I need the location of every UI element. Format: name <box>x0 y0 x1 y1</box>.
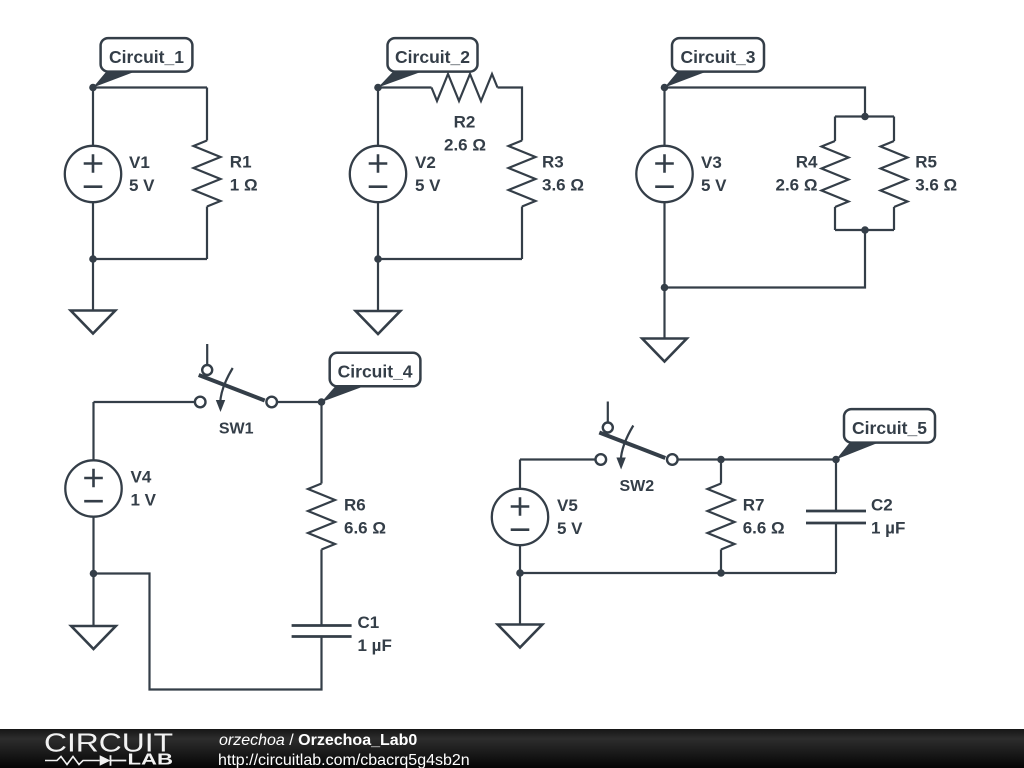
resistor R7 <box>708 484 735 550</box>
label R3 value <box>542 152 584 194</box>
label C2 value <box>871 495 905 537</box>
svg-text:3.6 Ω: 3.6 Ω <box>542 176 584 195</box>
node junction circuit3 bottom bracket <box>861 226 869 234</box>
label R5 value <box>915 152 957 194</box>
node callout Circuit_1 <box>89 38 192 91</box>
svg-text:Circuit_4: Circuit_4 <box>338 362 413 382</box>
voltage source V3 <box>636 146 692 202</box>
wire circuit2 bottom <box>378 258 522 260</box>
wire R4 leads <box>834 117 836 231</box>
svg-text:C2: C2 <box>871 495 893 514</box>
resistor R1 <box>194 141 221 207</box>
svg-text:R7: R7 <box>743 495 765 514</box>
svg-text:5 V: 5 V <box>415 176 441 195</box>
wire circuit2 left branch leads <box>377 88 379 260</box>
label V2 value <box>415 153 441 195</box>
wire circuit1 left branch leads <box>92 88 94 260</box>
svg-text:orzechoa / Orzechoa_Lab0: orzechoa / Orzechoa_Lab0 <box>219 732 417 749</box>
wire circuit1 right branch leads <box>206 88 208 260</box>
node junction circuit2 bottom <box>374 255 382 263</box>
svg-text:R3: R3 <box>542 152 564 171</box>
resistor R4 <box>822 141 849 207</box>
label R4 value <box>776 152 819 194</box>
label R1 value <box>230 152 258 194</box>
svg-text:Circuit_5: Circuit_5 <box>852 418 927 438</box>
svg-text:V2: V2 <box>415 153 436 172</box>
voltage source V5 <box>492 489 548 545</box>
capacitor C2 <box>806 511 866 523</box>
wire ground stem circuit2 <box>377 259 379 311</box>
node junction circuit4 bottom <box>90 570 98 578</box>
wire circuit4 left branch leads <box>92 402 94 574</box>
label C1 value <box>358 613 392 655</box>
wire ground stem circuit3 <box>663 288 665 339</box>
wire circuit5 bottom <box>520 572 836 574</box>
node callout Circuit_5 <box>832 409 935 463</box>
svg-text:Circuit_1: Circuit_1 <box>109 47 184 67</box>
svg-text:Circuit_2: Circuit_2 <box>395 47 470 67</box>
svg-text:5 V: 5 V <box>129 176 155 195</box>
svg-text:V5: V5 <box>557 496 578 515</box>
wire circuit1 bottom <box>93 258 207 260</box>
voltage source V4 <box>65 460 121 516</box>
wire circuit4 top left <box>94 401 195 403</box>
ground <box>71 626 116 649</box>
wire circuit4 right branch R6 leads <box>320 402 322 625</box>
ground <box>642 339 687 362</box>
svg-text:V4: V4 <box>131 467 152 486</box>
label V4 value <box>131 467 157 509</box>
svg-text:1 V: 1 V <box>131 491 157 510</box>
svg-text:5 V: 5 V <box>557 519 583 538</box>
svg-text:LAB: LAB <box>128 752 174 768</box>
svg-text:2.6 Ω: 2.6 Ω <box>444 136 486 155</box>
svg-text:C1: C1 <box>358 613 380 632</box>
resistor R2 <box>432 74 498 101</box>
svg-text:5 V: 5 V <box>701 176 727 195</box>
resistor R6 <box>308 484 335 550</box>
wire R7 leads <box>720 460 722 574</box>
svg-text:6.6 Ω: 6.6 Ω <box>743 519 785 538</box>
wire switch SW1 to node <box>277 401 321 403</box>
logo resistor-diode squiggle <box>45 757 100 765</box>
label V1 value <box>129 153 155 195</box>
wire circuit3 bottom <box>665 230 866 288</box>
label R6 value <box>344 495 386 537</box>
wire circuit4 bottom loop <box>94 574 322 690</box>
wire circuit2 top left <box>378 86 432 88</box>
node callout Circuit_4 <box>318 353 421 406</box>
wire circuit3 left branch leads <box>663 88 665 288</box>
svg-text:6.6 Ω: 6.6 Ω <box>344 519 386 538</box>
node junction circuit3 top <box>861 113 869 121</box>
svg-text:R4: R4 <box>796 152 818 171</box>
node callout Circuit_2 <box>374 38 477 91</box>
node junction circuit5 bottom <box>516 569 524 577</box>
wire ground stem circuit5 <box>519 573 521 625</box>
node junction circuit1 bottom <box>89 255 97 263</box>
svg-text:V3: V3 <box>701 153 722 172</box>
wire circuit3 top <box>665 88 866 117</box>
resistor R5 <box>881 141 908 207</box>
svg-text:1 µF: 1 µF <box>358 636 392 655</box>
svg-text:1 µF: 1 µF <box>871 519 905 538</box>
wire R5 leads <box>893 117 895 231</box>
wire circuit5 top left <box>520 460 595 489</box>
node junction R7 bottom <box>717 569 725 577</box>
wire C2 leads <box>835 460 837 574</box>
svg-text:R5: R5 <box>915 152 937 171</box>
svg-text:R6: R6 <box>344 495 366 514</box>
wire ground stem circuit1 <box>92 259 94 311</box>
node callout Circuit_3 <box>661 38 764 91</box>
svg-text:V1: V1 <box>129 153 150 172</box>
svg-text:1 Ω: 1 Ω <box>230 176 258 195</box>
label V3 value <box>701 153 727 195</box>
capacitor C1 <box>292 626 352 637</box>
label V5 value <box>557 496 583 538</box>
svg-text:Circuit_3: Circuit_3 <box>681 47 756 67</box>
svg-text:SW2: SW2 <box>619 478 654 495</box>
ground <box>498 625 543 648</box>
wire circuit3 top bracket <box>835 115 894 117</box>
svg-text:http://circuitlab.com/cbacrq5g: http://circuitlab.com/cbacrq5g4sb2n <box>218 752 470 768</box>
svg-text:2.6 Ω: 2.6 Ω <box>776 176 818 195</box>
wire circuit1 top <box>93 86 207 88</box>
label R7 value <box>743 495 785 537</box>
ground <box>356 311 401 334</box>
node junction R7 top <box>717 456 725 464</box>
node junction circuit3 bottom <box>661 284 669 292</box>
switch SW1 <box>195 344 277 412</box>
ground <box>71 311 116 334</box>
voltage source V2 <box>350 146 406 202</box>
footer bar <box>0 729 1024 768</box>
wire circuit3 bottom bracket <box>835 229 894 231</box>
wire circuit2 top right + right branch <box>498 88 523 260</box>
svg-text:3.6 Ω: 3.6 Ω <box>915 176 957 195</box>
svg-text:R1: R1 <box>230 152 252 171</box>
voltage source V1 <box>65 146 121 202</box>
svg-text:SW1: SW1 <box>219 421 254 438</box>
wire switch SW2 to node <box>677 458 836 460</box>
wire ground stem circuit4 <box>92 574 94 627</box>
wire circuit5 left branch leads <box>519 517 521 573</box>
switch SW2 <box>596 402 678 470</box>
resistor R3 <box>509 141 536 207</box>
label R2 value <box>444 113 486 155</box>
svg-text:R2: R2 <box>454 113 476 132</box>
